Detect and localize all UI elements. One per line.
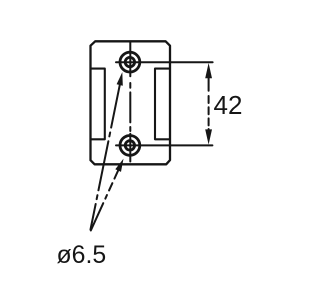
hole H2 outer circle — [120, 136, 140, 156]
vertical centerline through H2 — [129, 134, 131, 162]
centerline H1 horizontal / extension line to dimension — [116, 61, 213, 63]
right slot — [155, 69, 170, 140]
svg-text:42: 42 — [214, 90, 243, 120]
leader arrow at H2 — [115, 159, 123, 172]
dimension line 42 vertical — [208, 76, 210, 131]
plate outline — [91, 41, 171, 164]
vertical centerline through H1 — [129, 43, 131, 76]
centerline H2 horizontal / extension line to dimension — [116, 144, 212, 146]
svg-text:ø6.5: ø6.5 — [57, 242, 107, 269]
leader line to hole H1 — [91, 85, 120, 230]
hole H2 inner circle — [125, 141, 134, 150]
hole H1 outer circle — [120, 52, 140, 72]
leader arrow at H1 — [117, 72, 123, 86]
left slot — [91, 69, 105, 140]
leader line to hole H2 — [91, 171, 118, 231]
hole H1 inner circle — [125, 57, 134, 66]
dimension arrow down — [205, 129, 212, 144]
vertical centerline dash-dot between holes — [129, 83, 131, 131]
dimension arrow up — [205, 63, 212, 78]
